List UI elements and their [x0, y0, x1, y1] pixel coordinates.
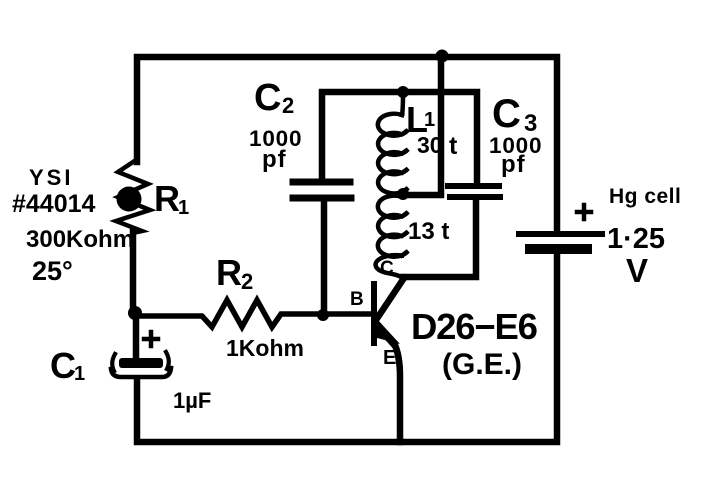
svg-text:2: 2 — [241, 269, 253, 294]
svg-text:C: C — [492, 92, 521, 136]
svg-text:pf: pf — [262, 146, 287, 173]
svg-text:C: C — [50, 345, 76, 386]
svg-text:D26−E6: D26−E6 — [411, 306, 537, 347]
svg-text:1: 1 — [424, 109, 435, 131]
svg-text:Hg cell: Hg cell — [609, 185, 681, 208]
svg-text:30: 30 — [417, 132, 443, 158]
svg-text:1µF: 1µF — [173, 388, 211, 413]
svg-text:t: t — [449, 132, 458, 160]
svg-text:1: 1 — [74, 363, 85, 385]
svg-text:#44014: #44014 — [12, 190, 96, 218]
svg-text:25°: 25° — [32, 256, 73, 286]
svg-text:R: R — [154, 178, 180, 219]
svg-text:300Kohm: 300Kohm — [26, 226, 134, 253]
svg-text:1·25: 1·25 — [607, 223, 665, 255]
svg-text:2: 2 — [282, 93, 294, 118]
svg-text:(G.E.): (G.E.) — [442, 348, 522, 381]
svg-text:R: R — [216, 252, 242, 293]
svg-text:B: B — [350, 289, 364, 310]
svg-text:pf: pf — [501, 151, 526, 178]
svg-text:V: V — [626, 252, 648, 289]
svg-text:13 t: 13 t — [408, 218, 449, 245]
svg-text:1: 1 — [178, 197, 189, 219]
svg-text:1Kohm: 1Kohm — [226, 335, 304, 361]
svg-text:E: E — [383, 347, 396, 369]
svg-text:YSI: YSI — [29, 165, 73, 190]
svg-text:C: C — [380, 258, 394, 279]
svg-text:C: C — [254, 77, 281, 119]
